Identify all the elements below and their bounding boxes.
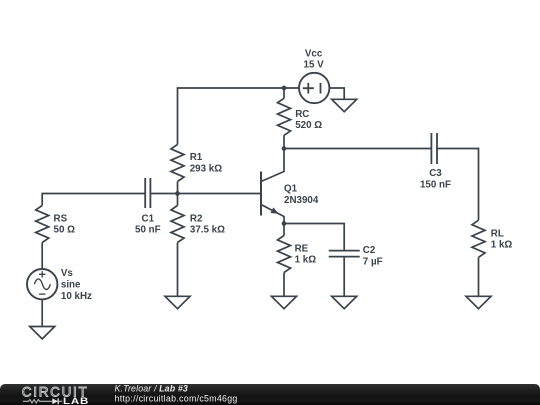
svg-text:C3: C3 [429,168,442,179]
ground (RL) [466,296,491,308]
resistor RC [278,98,323,135]
svg-text:1 kΩ: 1 kΩ [491,240,513,251]
svg-text:http://circuitlab.com/c5m46gg: http://circuitlab.com/c5m46gg [115,393,238,403]
svg-text:R1: R1 [190,152,203,163]
ground (Vcc) [332,99,357,111]
node junction dot Vcc rail [282,86,287,91]
wire RC top stub [283,88,285,98]
voltage source Vs [27,268,92,302]
capacitor C1 [135,178,161,236]
node junction dot collector [282,146,287,151]
svg-text:Vs: Vs [61,268,74,279]
wire C1 to base [150,193,260,195]
wire base rail left (RS corner to C1) [42,194,145,206]
wire C2 bottom [343,257,345,297]
CircuitLab logo diode [52,398,58,404]
wire RE bottom [283,273,285,297]
svg-text:2N3904: 2N3904 [284,195,319,206]
footer bar [0,384,540,405]
wire R2 bottom [177,243,179,297]
resistor RE [278,236,317,273]
svg-text:C1: C1 [142,213,155,224]
svg-text:LAB: LAB [63,396,89,405]
wire RE top stub [283,224,285,236]
svg-text:Vcc: Vcc [305,48,323,59]
ground (R2) [165,296,190,308]
svg-text:50 nF: 50 nF [135,225,161,236]
svg-text:K.Treloar / Lab #3: K.Treloar / Lab #3 [115,384,188,394]
wire RC bottom stub [283,135,285,148]
svg-text:10 kHz: 10 kHz [61,291,92,302]
svg-text:RS: RS [54,213,68,224]
svg-text:520 Ω: 520 Ω [295,120,322,131]
svg-text:1 kΩ: 1 kΩ [295,255,317,266]
wire R1 bottom stub [177,182,179,194]
voltage source Vcc [299,48,329,103]
resistor RL [472,220,512,257]
svg-text:150 nF: 150 nF [420,180,451,191]
emitter arrow [270,207,278,213]
svg-text:C2: C2 [363,245,376,256]
capacitor C3 [420,133,451,191]
svg-text:7 µF: 7 µF [363,256,383,267]
CircuitLab logo resistor squiggle [23,400,52,404]
ground (C2) [332,296,357,308]
wire RS bottom to Vs [41,243,43,270]
svg-text:15 V: 15 V [304,60,325,71]
wire C3 to RL [437,149,479,221]
wire Vs bottom to ground [41,299,43,326]
wire RL bottom [478,257,480,296]
svg-text:RL: RL [491,228,504,239]
svg-text:RE: RE [295,243,309,254]
wire R2 top stub [177,194,179,206]
wire top rail from R1 to Vcc [178,88,300,145]
resistor R2 [171,206,225,243]
capacitor C2 [329,245,383,267]
wire emitter rail to C2 [284,224,344,251]
node junction dot emitter [282,221,287,226]
svg-text:293 kΩ: 293 kΩ [190,164,223,175]
resistor R1 [171,145,222,182]
transistor Q1 [261,149,319,224]
svg-text:sine: sine [61,279,81,290]
svg-text:37.5 kΩ: 37.5 kΩ [190,225,225,236]
svg-text:Q1: Q1 [284,184,298,195]
ground (RE) [272,296,297,308]
wire collector rail to C3 [284,148,431,150]
node junction dot base [175,191,180,196]
svg-text:R2: R2 [190,213,203,224]
resistor RS [36,206,75,243]
ground (Vs) [30,327,55,339]
svg-text:RC: RC [295,109,309,120]
wire Vcc right to ground [329,88,344,99]
svg-text:50 Ω: 50 Ω [54,225,76,236]
